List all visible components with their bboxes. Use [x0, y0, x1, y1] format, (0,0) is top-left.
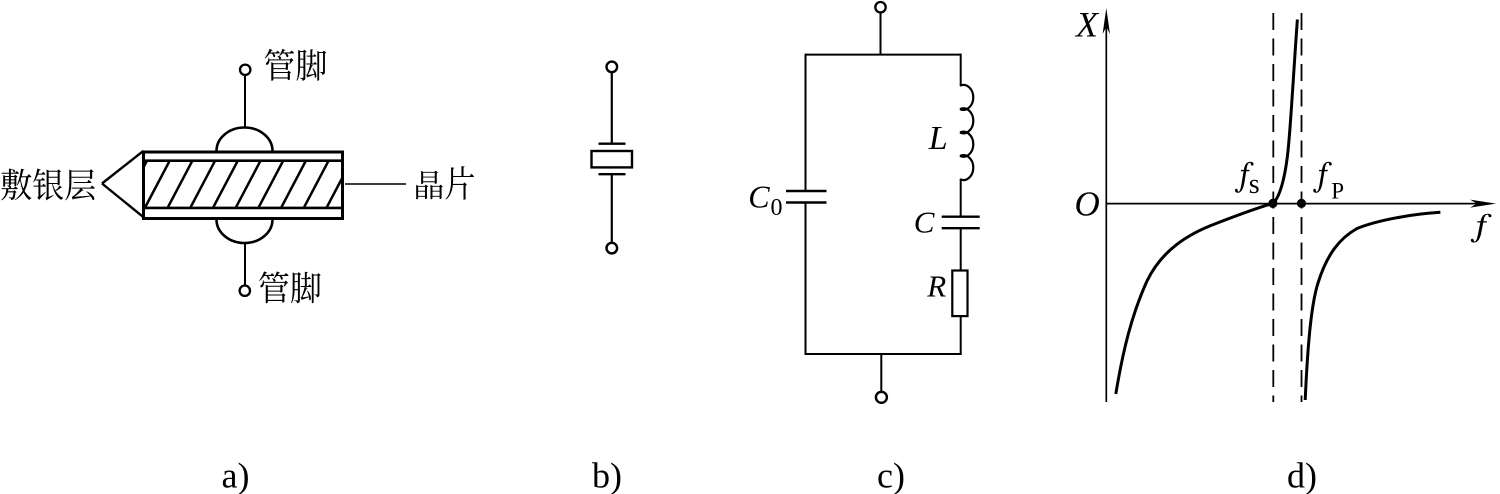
wire L to C: [960, 179, 962, 217]
bottom silver layer boundary line: [145, 207, 342, 210]
dashed asymptote line at fs: [1272, 13, 1274, 402]
top silver layer boundary line: [145, 159, 342, 162]
label 管脚 top: [265, 49, 327, 81]
svg-text:d): d): [1287, 456, 1317, 494]
bottom electrode bump: [217, 220, 273, 244]
resistor R body: [952, 271, 967, 317]
wire bottom (b): [611, 174, 613, 242]
crystal body rectangle: [592, 151, 633, 167]
crystal plate outer body: [144, 152, 343, 219]
svg-text:c): c): [877, 456, 905, 494]
svg-text:s: s: [1249, 169, 1260, 200]
wire from top terminal: [880, 13, 882, 55]
top pin wire: [244, 75, 246, 128]
wire to bottom terminal: [880, 354, 882, 391]
crystal top plate electrode: [599, 142, 626, 144]
bottom rail wire: [806, 353, 961, 355]
terminal circle bottom (c): [876, 392, 887, 403]
leader line to 晶片: [345, 183, 406, 185]
X axis with arrow: [1106, 203, 1485, 205]
leader arrow pointing to silver layers: [102, 151, 144, 217]
terminal circle top (b): [607, 62, 618, 73]
svg-text:C: C: [914, 205, 935, 240]
capacitor C plates: [942, 217, 980, 229]
dashed asymptote line at fP: [1301, 13, 1303, 402]
svg-text:X: X: [1074, 5, 1100, 45]
terminal circle of bottom pin: [240, 286, 250, 296]
inductor L: [960, 85, 973, 180]
svg-text:O: O: [1075, 185, 1100, 224]
capacitor C0 plates: [786, 191, 827, 203]
label fs: [1235, 162, 1254, 193]
top electrode bump: [217, 128, 273, 152]
node dot fP: [1297, 199, 1306, 208]
reactance curve right branch: [1305, 212, 1440, 400]
svg-text:b): b): [592, 456, 622, 494]
label 晶片 (crystal chip): [416, 166, 474, 200]
Y axis with arrow: [1105, 20, 1107, 402]
reactance curve left branch: [1116, 203, 1273, 394]
label 管脚 bottom: [259, 271, 321, 303]
terminal circle bottom (b): [607, 243, 618, 254]
svg-text:L: L: [928, 120, 948, 157]
wire C to R: [960, 228, 962, 270]
wire top (b): [611, 73, 613, 144]
bottom pin wire: [244, 243, 246, 285]
label fP: [1313, 162, 1332, 193]
crystal bottom plate electrode: [599, 173, 626, 175]
left branch wire lower: [805, 203, 807, 356]
terminal circle of top pin: [240, 65, 250, 75]
right branch wire upper: [960, 54, 962, 86]
wire below R: [960, 316, 962, 355]
left branch wire upper: [805, 54, 807, 191]
svg-text:0: 0: [771, 195, 783, 221]
node dot fs: [1268, 199, 1277, 208]
top rail wire: [806, 54, 961, 56]
terminal circle top (c): [875, 2, 885, 12]
label 敷银层 (silver plating layer): [1, 169, 95, 201]
svg-text:a): a): [222, 456, 250, 494]
svg-text:C: C: [748, 179, 770, 215]
svg-text:P: P: [1331, 179, 1344, 204]
reactance curve middle branch: [1273, 20, 1298, 204]
label f: [1471, 214, 1492, 243]
svg-text:R: R: [926, 268, 946, 303]
